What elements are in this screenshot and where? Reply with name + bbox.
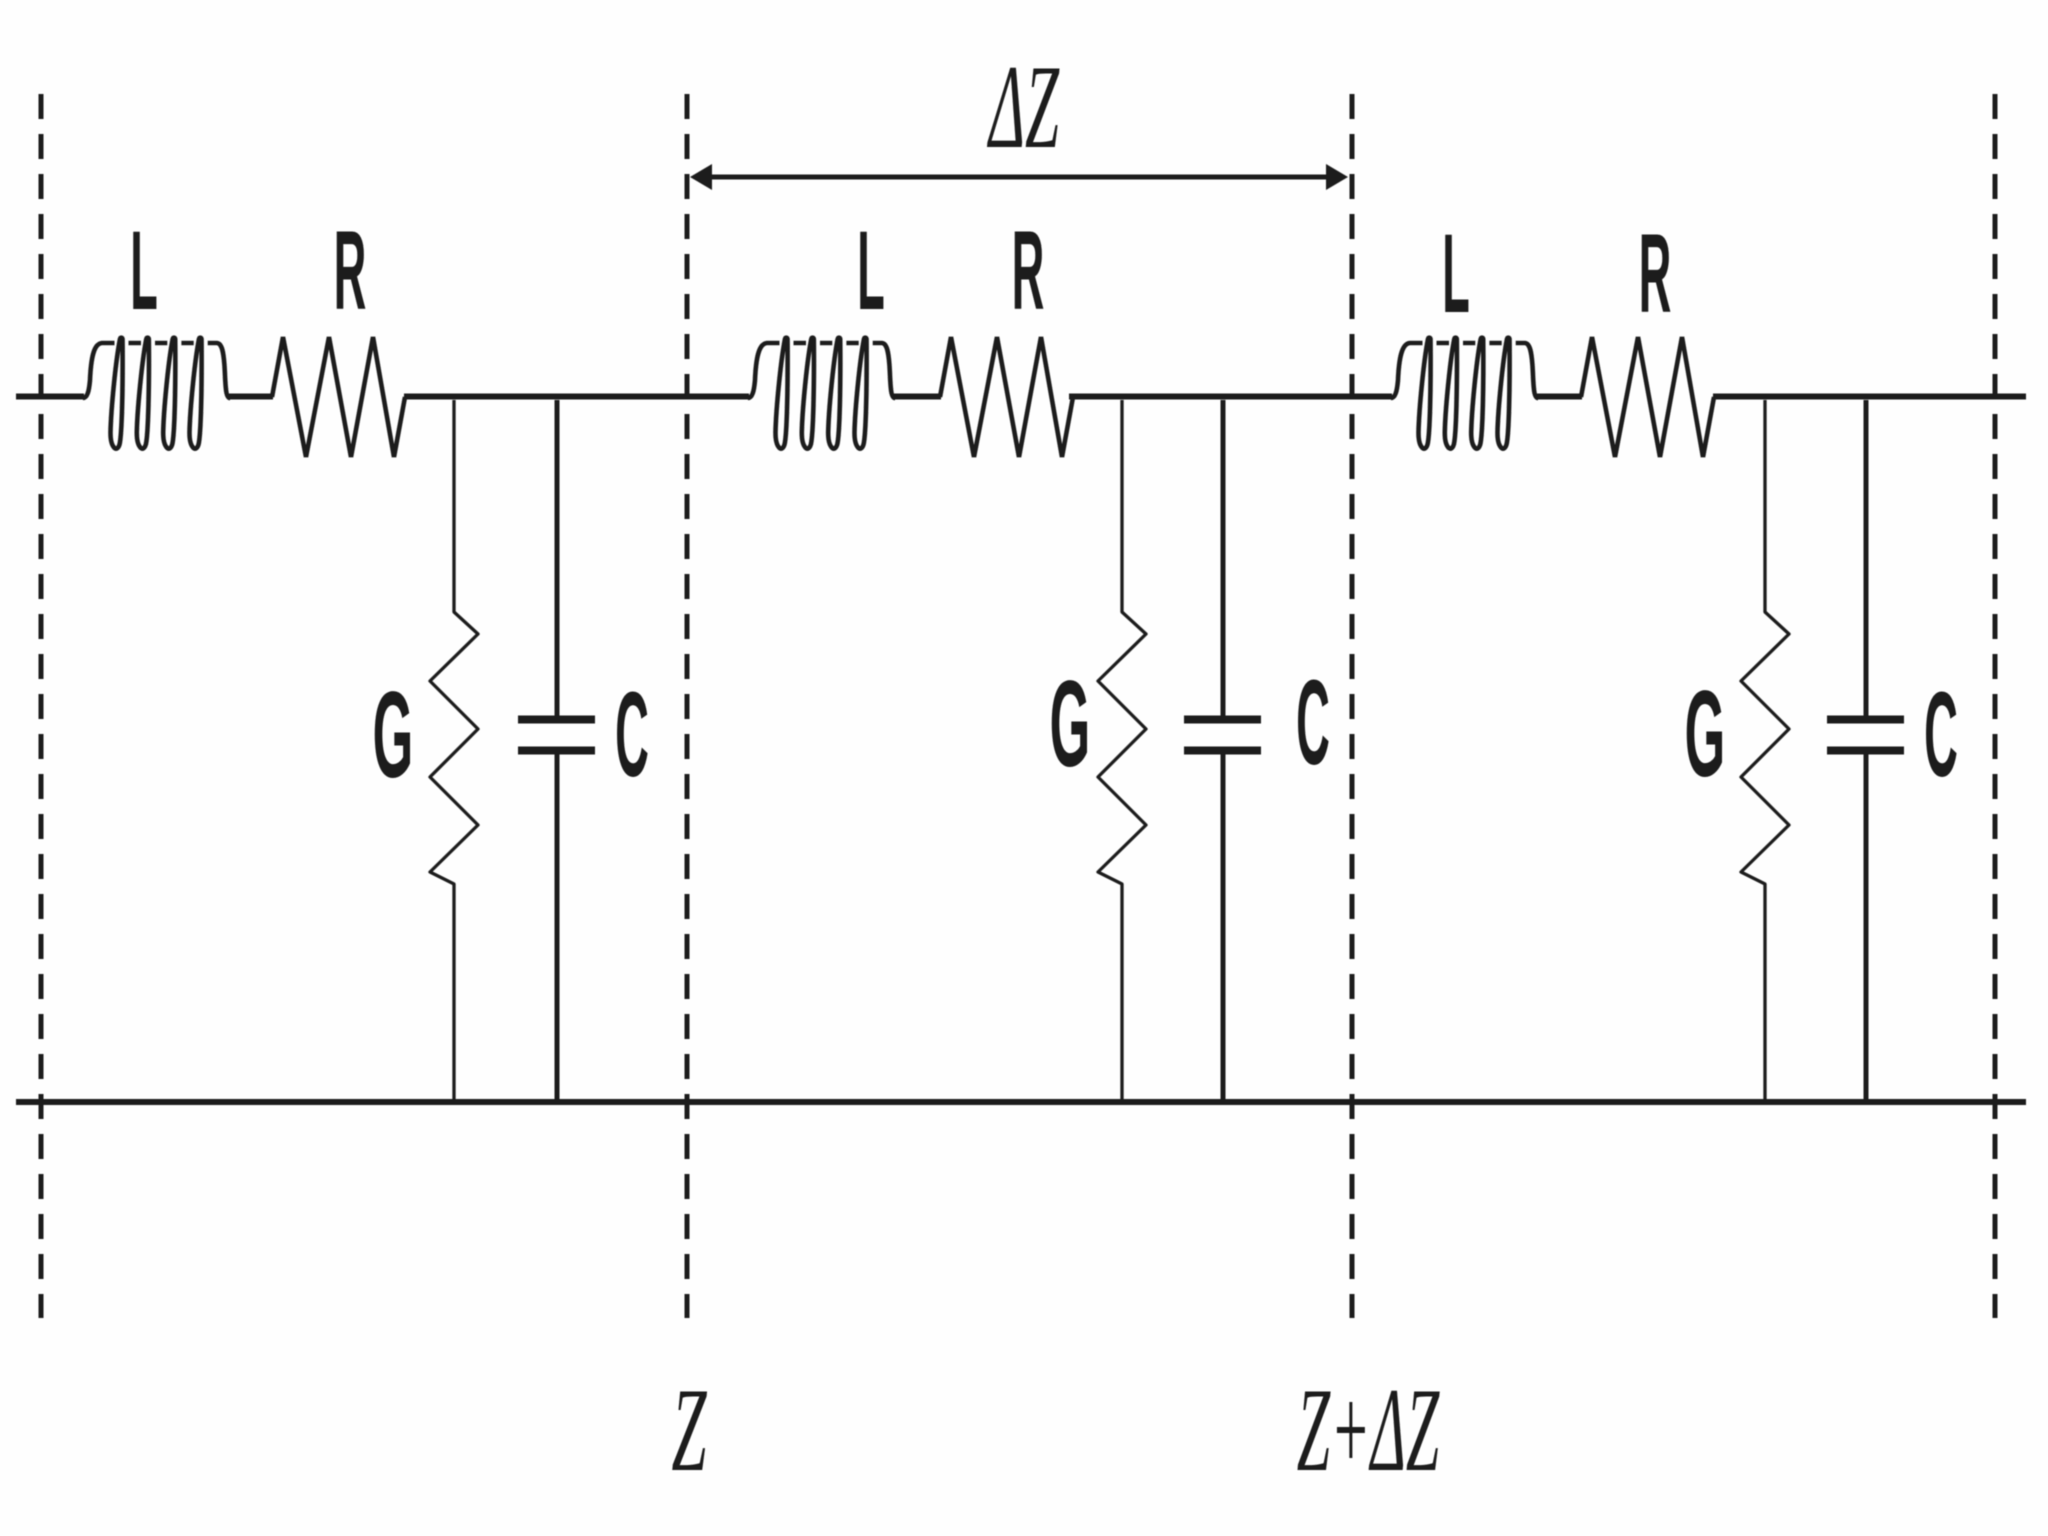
capacitor C (section 3) xyxy=(1827,400,1904,1102)
svg-text:R: R xyxy=(334,208,367,334)
svg-text:L: L xyxy=(857,208,885,334)
wire between L and R (section 3) xyxy=(1537,394,1582,400)
bottom return wire xyxy=(16,1099,2026,1105)
svg-text:R: R xyxy=(1639,211,1672,337)
svg-text:G: G xyxy=(373,666,414,803)
wire after R (section 3) xyxy=(1713,394,2026,400)
shunt conductance G (section 2) xyxy=(1098,400,1146,1102)
resistor R (section 1) xyxy=(272,337,405,457)
svg-text:R: R xyxy=(1012,208,1045,334)
wire between L and R (section 1) xyxy=(229,394,273,400)
shunt conductance G (section 1) xyxy=(430,400,478,1102)
shunt conductance G (section 3) xyxy=(1741,400,1789,1102)
resistor R (section 2) xyxy=(940,337,1073,457)
node boundary dashed line (right outer) xyxy=(1993,94,1998,1318)
capacitor C (section 2) xyxy=(1184,400,1261,1102)
svg-text:L: L xyxy=(130,208,158,334)
wire between L and R (section 2) xyxy=(893,394,941,400)
node boundary dashed line at z=Z+dZ xyxy=(1350,94,1355,1318)
svg-text:C: C xyxy=(1924,668,1958,803)
svg-text:Z+ΔZ: Z+ΔZ xyxy=(1297,1362,1440,1496)
resistor R (section 3) xyxy=(1581,337,1714,457)
inductor L (section 2) xyxy=(748,338,895,449)
svg-text:C: C xyxy=(615,668,649,803)
wire after R (section 1) xyxy=(404,394,749,400)
inductor L (section 1) xyxy=(83,338,230,449)
node boundary dashed line at z=Z (left outer) xyxy=(39,94,44,1318)
capacitor C (section 1) xyxy=(518,400,595,1102)
wire after R (section 2) xyxy=(1069,394,1392,400)
svg-text:L: L xyxy=(1442,211,1470,337)
svg-text:ΔZ: ΔZ xyxy=(986,40,1059,174)
node boundary dashed line at z=Z xyxy=(685,94,690,1318)
svg-text:G: G xyxy=(1050,655,1091,792)
svg-text:Z: Z xyxy=(671,1364,707,1497)
svg-text:G: G xyxy=(1685,665,1726,802)
wire top line segment (left stub) xyxy=(16,394,84,400)
inductor L (section 3) xyxy=(1391,338,1538,449)
svg-text:C: C xyxy=(1296,656,1330,791)
dimension arrow dZ xyxy=(690,164,1348,190)
